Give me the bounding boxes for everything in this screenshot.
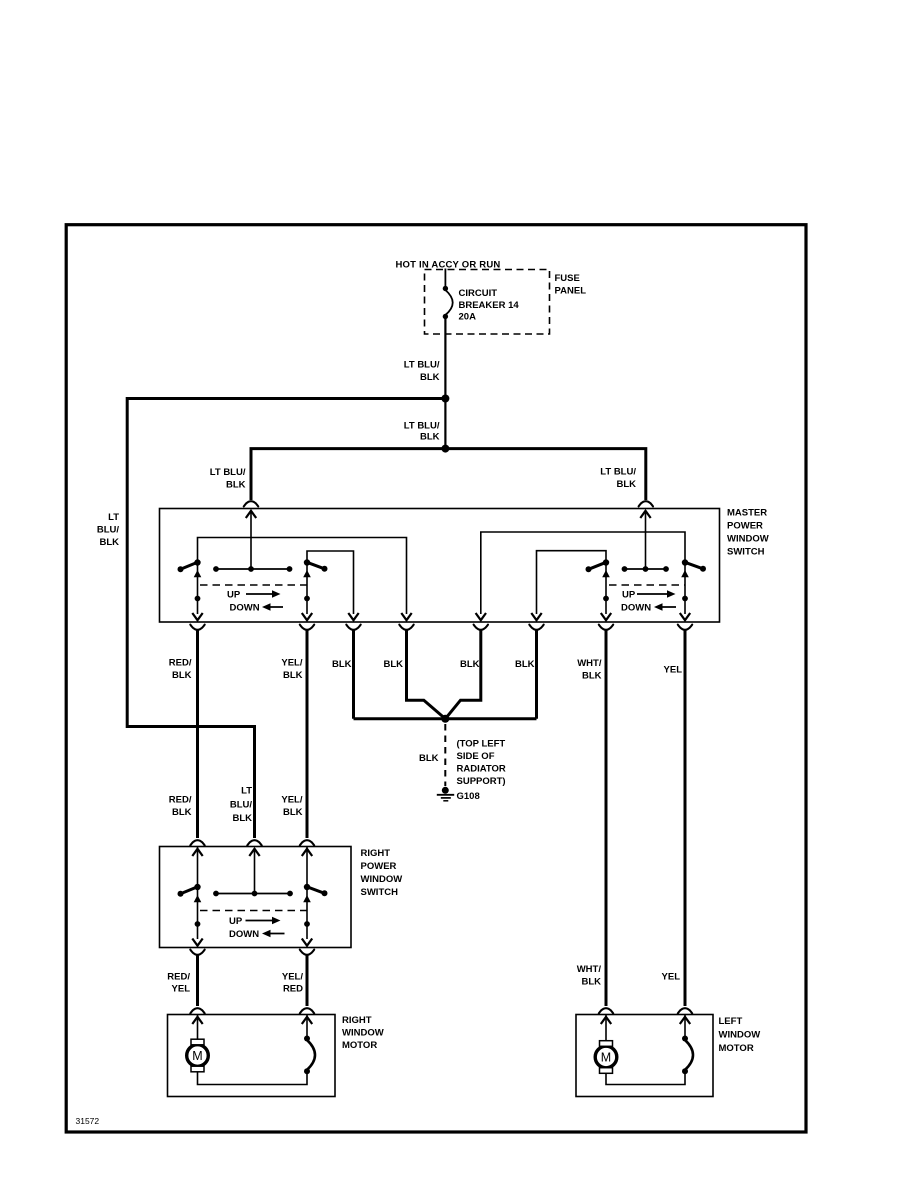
svg-text:G108: G108 [457,791,480,802]
svg-text:BLK: BLK [172,670,192,681]
motor M left [595,1046,617,1068]
master right rocker: left wiper [589,562,607,569]
connector: left motor feed 1 [599,1008,613,1013]
right switch: center feed [254,848,256,894]
right motor: internal breaker [304,1036,310,1042]
svg-text:20A: 20A [459,312,477,323]
wire: BLK output 6 to ground bus [535,630,538,719]
connector: right switch feed 2 [247,840,261,845]
connector: right motor feed 2 [300,1008,314,1013]
svg-text:POWER: POWER [727,521,763,532]
wire: right rocker right pivot link to output 5 [481,532,685,614]
dashed rocker separator right [609,584,685,586]
svg-text:BLK: BLK [283,807,303,818]
svg-text:RED: RED [283,984,303,995]
arrows and dots on left through wire [194,895,202,902]
master left rocker: feed line [250,512,252,570]
svg-text:RIGHT: RIGHT [342,1015,372,1026]
wire: circuit breaker output LT BLU/BLK [444,318,446,399]
wire: feed into circuit breaker [444,269,446,288]
svg-text:LT: LT [241,786,252,797]
svg-text:LT: LT [108,512,119,523]
master right rocker: right wiper [685,562,703,569]
svg-text:BLK: BLK [419,753,439,764]
svg-text:SIDE OF: SIDE OF [457,751,495,762]
svg-text:31572: 31572 [76,1116,100,1126]
svg-text:DOWN: DOWN [229,929,259,940]
svg-text:M: M [192,1049,202,1063]
svg-text:WHT/: WHT/ [577,964,602,975]
svg-text:BLK: BLK [283,670,303,681]
svg-text:SWITCH: SWITCH [727,547,765,558]
wire: WHT/BLK master to left motor [605,630,608,1006]
svg-text:BLK: BLK [383,659,403,670]
connector: master output 2 [300,625,314,630]
svg-text:M: M [601,1051,611,1065]
wire: BLK output 5 to ground splice [445,630,481,719]
svg-text:BLK: BLK [226,480,246,491]
svg-text:BLK: BLK [420,372,440,383]
wire: ground bus [354,717,537,720]
right motor: breaker lead [306,1015,308,1038]
dashed rocker separator left [200,584,307,586]
right power window switch box [160,847,352,948]
svg-text:RADIATOR: RADIATOR [457,764,506,775]
svg-text:FUSE: FUSE [555,273,580,284]
svg-text:POWER: POWER [361,861,397,872]
svg-text:BLK: BLK [232,813,252,824]
dashed rocker separator [200,910,307,912]
wire: left pivot down to output 7 [605,563,607,614]
master left rocker: left wiper [181,562,198,569]
svg-text:WINDOW: WINDOW [727,534,769,545]
ground G108 [442,787,449,794]
connector: master output 6 [529,625,543,630]
svg-text:CIRCUIT: CIRCUIT [459,288,498,299]
connector: right switch output 1 [190,950,204,955]
svg-text:LT BLU/: LT BLU/ [404,420,440,431]
svg-text:DOWN: DOWN [230,603,260,614]
right motor: left lead [197,1015,199,1040]
splice S1 [441,395,449,403]
wire: left pivot down to output 1 [197,563,199,614]
svg-text:BLK: BLK [515,659,535,670]
connector: master output 5 [474,625,488,630]
svg-text:BREAKER 14: BREAKER 14 [459,300,520,311]
wire: right pivot down to output 8 [684,563,686,614]
svg-text:WINDOW: WINDOW [361,874,403,885]
svg-text:BLK: BLK [460,659,480,670]
svg-text:UP: UP [229,916,243,927]
svg-text:BLK: BLK [616,479,636,490]
svg-text:YEL: YEL [662,972,681,983]
connector: left motor feed 2 [678,1008,692,1013]
svg-text:BLK: BLK [332,659,352,670]
svg-text:BLU/: BLU/ [230,800,253,811]
connector: master output 3 [346,625,360,630]
left motor: breaker lead [684,1015,686,1038]
svg-text:SWITCH: SWITCH [361,887,399,898]
svg-text:WINDOW: WINDOW [342,1028,384,1039]
wire: YEL/BLK master to right switch [306,630,309,838]
svg-text:RED/: RED/ [167,972,190,983]
svg-text:LEFT: LEFT [719,1016,743,1027]
svg-text:SUPPORT): SUPPORT) [457,776,506,787]
wire: left motor bottom link [606,1073,685,1085]
connector: master output 8 [678,625,692,630]
master right rocker: contact bar [625,568,667,570]
right switch: right through wire [306,847,308,940]
svg-text:BLK: BLK [581,977,601,988]
svg-text:YEL/: YEL/ [281,795,302,806]
svg-text:MOTOR: MOTOR [342,1040,377,1051]
motor M right [187,1045,209,1067]
svg-text:RED/: RED/ [169,795,192,806]
left motor: internal breaker [682,1036,688,1042]
svg-text:BLK: BLK [582,671,602,682]
connector: right switch output 2 [300,950,314,955]
svg-text:UP: UP [622,590,636,601]
wire: right rocker left pivot link to output 6 [537,551,607,614]
master left rocker: contact bar [216,568,290,570]
connector: master output 7 [599,625,613,630]
svg-text:LT BLU/: LT BLU/ [600,467,636,478]
splice S2 [441,445,449,453]
svg-text:RIGHT: RIGHT [361,848,391,859]
left window motor box [576,1015,713,1097]
master right rocker: feed line [645,512,647,570]
svg-text:LT BLU/: LT BLU/ [210,467,246,478]
wire: S1 to S2 LT BLU/BLK [444,399,446,449]
svg-text:WHT/: WHT/ [577,658,602,669]
fuse panel dashed box [425,270,550,335]
connector: right switch feed 1 [190,840,204,845]
svg-text:UP: UP [227,590,241,601]
wire: BLK output 4 to ground splice [407,630,446,719]
master power window switch box [160,509,720,623]
svg-text:YEL: YEL [664,665,683,676]
svg-text:WINDOW: WINDOW [719,1030,761,1041]
svg-text:DOWN: DOWN [621,603,651,614]
wire: BLK output 3 to ground bus [352,630,355,719]
svg-text:BLU/: BLU/ [97,525,120,536]
wire: RED/YEL to right motor [196,955,199,1006]
circuit breaker 14 20A [443,286,448,291]
right switch: contact bar [216,893,290,895]
wire: YEL/RED to right motor [306,955,309,1006]
wire: left LT BLU/BLK run to right switch [127,397,254,838]
right switch: left through wire [197,847,199,940]
wire: bus1 to left run [127,397,445,400]
svg-text:MOTOR: MOTOR [719,1043,754,1054]
right window motor box [168,1015,336,1097]
ground splice [441,715,449,723]
svg-text:BLK: BLK [172,807,192,818]
wire: dashed BLK drop to ground [444,724,446,786]
svg-text:YEL: YEL [172,984,191,995]
svg-text:YEL/: YEL/ [281,658,302,669]
svg-text:BLK: BLK [99,537,119,548]
svg-text:MASTER: MASTER [727,508,767,519]
connector: left master feed [244,501,258,506]
border frame [66,225,806,1132]
wire: right motor bottom link [198,1072,308,1085]
wire: right pivot down to output 2 [306,563,308,614]
svg-text:YEL/: YEL/ [282,972,303,983]
arrows and dots on right through wire [303,895,311,902]
connector: right switch feed 3 [300,840,314,845]
svg-text:BLK: BLK [420,432,440,443]
wire: YEL master to left motor [684,630,687,1006]
connector: right master feed [639,501,653,506]
connector: master output 4 [399,625,413,630]
svg-text:PANEL: PANEL [555,286,587,297]
master left rocker: right wiper [307,562,325,569]
svg-text:LT BLU/: LT BLU/ [404,360,440,371]
right switch: left wiper [181,887,198,894]
left motor: left lead [605,1015,607,1042]
connector: master output 1 [190,625,204,630]
wire: RED/BLK master to right switch [196,630,199,838]
svg-text:RED/: RED/ [169,658,192,669]
wire: right pivot link to output 3 [307,551,354,614]
connector: right motor feed 1 [190,1008,204,1013]
svg-text:(TOP LEFT: (TOP LEFT [457,738,506,749]
right switch: right wiper [307,887,325,894]
wire: bus2 across to both master switch feeds [251,449,646,500]
wire: left pivot link to output 4 [198,538,407,615]
